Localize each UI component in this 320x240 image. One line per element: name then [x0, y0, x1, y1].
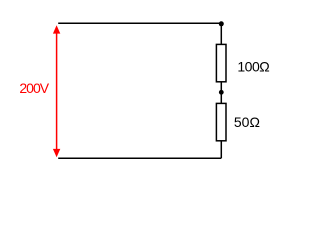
svg-text:200V: 200V — [19, 80, 49, 96]
svg-text:100Ω: 100Ω — [237, 58, 269, 74]
svg-text:50Ω: 50Ω — [234, 114, 260, 130]
